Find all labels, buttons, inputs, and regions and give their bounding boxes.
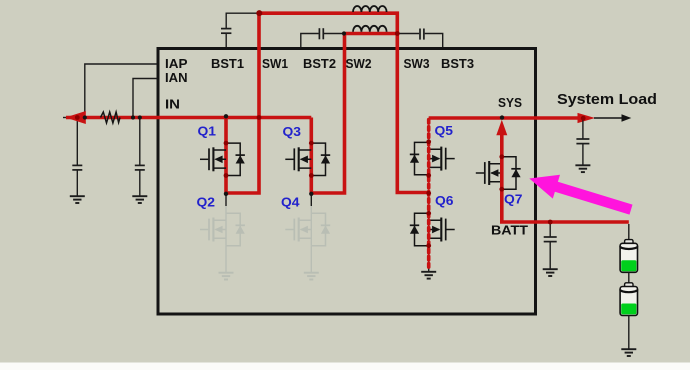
svg-text:Q6: Q6 bbox=[435, 193, 454, 208]
ground under C3 bbox=[575, 165, 590, 172]
wire red Q7 line and BATT row bbox=[502, 131, 629, 222]
wire IAN pin to IN node bbox=[133, 79, 157, 117]
battery cell BT2 bbox=[620, 283, 637, 316]
wire red dashed Q5/Q6 channel bbox=[427, 120, 431, 271]
svg-text:BATT: BATT bbox=[491, 223, 528, 238]
svg-text:Q3: Q3 bbox=[283, 124, 302, 139]
wire SYS cap tap bbox=[582, 120, 584, 139]
label Q7 bbox=[504, 192, 523, 207]
svg-text:System Load: System Load bbox=[557, 91, 657, 108]
svg-text:BST3: BST3 bbox=[441, 56, 474, 71]
transistor Q2 (disabled, faded) bbox=[200, 206, 245, 246]
ground under C2 bbox=[132, 196, 147, 203]
svg-text:SW1: SW1 bbox=[262, 56, 288, 71]
capacitor CB2 (BST2 bootstrap) bbox=[301, 28, 343, 47]
magenta annotation arrow bbox=[529, 175, 632, 215]
ground faded under Q2 bbox=[219, 273, 234, 280]
wire red Q3 channel / bottom / SW2 riser / L2 baseline bbox=[311, 34, 397, 194]
IC box U1 bbox=[158, 49, 536, 315]
red arrowhead SYS (points right) bbox=[578, 113, 596, 123]
label System Load bbox=[557, 91, 657, 108]
svg-text:Q7: Q7 bbox=[504, 192, 523, 207]
transistor Q6 (mirrored) bbox=[410, 213, 455, 245]
battery cell BT1 bbox=[620, 240, 637, 273]
svg-text:IAN: IAN bbox=[165, 70, 188, 85]
pin label IN bbox=[165, 97, 180, 112]
capacitor C2 bbox=[135, 165, 145, 195]
wire Q4 drain tick bbox=[310, 196, 312, 207]
pin label IAN bbox=[165, 70, 188, 85]
wire red IN row bbox=[66, 116, 311, 120]
transistor Q4 (disabled, faded) bbox=[285, 206, 330, 246]
wire red Q1 channel drop bbox=[224, 118, 228, 194]
label Q6 bbox=[435, 193, 454, 208]
wire red Q1 bottom / SW1 riser / top rail / SW3 corner bbox=[226, 13, 397, 193]
wire red SYS row bbox=[429, 116, 578, 120]
inductor L2 bbox=[353, 26, 387, 32]
label Q2 bbox=[197, 195, 216, 210]
pin label BST1 bbox=[211, 56, 244, 71]
wire input cap C2 tap bbox=[139, 118, 141, 165]
capacitor C1 bbox=[72, 165, 82, 195]
svg-text:IN: IN bbox=[165, 97, 180, 112]
capacitor C4 (BATT) bbox=[544, 237, 557, 269]
svg-text:SW3: SW3 bbox=[404, 56, 430, 71]
red arrowhead Q7 to SYS (points up) bbox=[496, 120, 507, 136]
transistor Q5 (mirrored) bbox=[410, 142, 455, 174]
ground under C4 bbox=[543, 269, 558, 276]
svg-text:BST1: BST1 bbox=[211, 56, 244, 71]
wire faded Q4 source to ground bbox=[310, 246, 312, 273]
wire between battery cells bbox=[628, 272, 630, 283]
transistor Q7 bbox=[476, 157, 521, 189]
capacitor CB1 (BST1 bootstrap) bbox=[221, 13, 257, 47]
svg-text:Q5: Q5 bbox=[435, 123, 454, 138]
svg-text:Q4: Q4 bbox=[281, 195, 300, 210]
ground under battery bbox=[621, 349, 636, 356]
transistor Q1 bbox=[200, 143, 245, 175]
label Q1 bbox=[198, 124, 217, 139]
wire battery to ground bbox=[628, 316, 630, 349]
wire battery branch top bbox=[628, 224, 630, 240]
red arrowhead IN (points left) bbox=[65, 111, 86, 124]
node dots dark red bbox=[75, 10, 586, 248]
wire black under Q5/Q6 dashes bbox=[428, 142, 430, 271]
pin label BST3 bbox=[441, 56, 474, 71]
wire Q2 drain tick bbox=[225, 196, 227, 207]
capacitor CB3 (BST3 bootstrap) bbox=[398, 29, 443, 48]
pin label IAP bbox=[165, 56, 188, 71]
black arrowhead System Load bbox=[622, 114, 632, 122]
wire IN net black stub bbox=[63, 117, 70, 119]
ground under Q6 bbox=[421, 272, 436, 279]
label Q4 bbox=[281, 195, 300, 210]
pin label SW2 bbox=[346, 56, 372, 71]
pin label BST2 bbox=[303, 56, 336, 71]
pin label SYS bbox=[498, 95, 522, 110]
wire IAP pin to IN node bbox=[85, 64, 157, 116]
resistor R1 bbox=[101, 112, 121, 123]
node dots black bbox=[83, 31, 504, 196]
transistor Q3 bbox=[285, 143, 330, 175]
ground faded under Q4 bbox=[304, 273, 319, 280]
wire BATT cap tap bbox=[549, 224, 551, 237]
wire input cap C1 tap bbox=[76, 118, 78, 165]
wire System Load line bbox=[594, 117, 625, 119]
inductor L1 bbox=[353, 6, 387, 12]
svg-text:BST2: BST2 bbox=[303, 56, 336, 71]
svg-text:IAP: IAP bbox=[165, 56, 188, 71]
wire red SW3 drop to Q5-Q6 node bbox=[397, 34, 428, 193]
svg-text:SYS: SYS bbox=[498, 95, 522, 110]
svg-text:Q2: Q2 bbox=[197, 195, 216, 210]
pin label SW1 bbox=[262, 56, 288, 71]
pin label SW3 bbox=[404, 56, 430, 71]
wire faded Q2 source to ground bbox=[225, 246, 227, 273]
label Q3 bbox=[283, 124, 302, 139]
pin label BATT bbox=[491, 223, 528, 238]
capacitor C3 (SYS) bbox=[576, 139, 589, 165]
svg-text:Q1: Q1 bbox=[198, 124, 217, 139]
svg-text:SW2: SW2 bbox=[346, 56, 372, 71]
label Q5 bbox=[435, 123, 454, 138]
ground under C1 bbox=[70, 196, 85, 203]
